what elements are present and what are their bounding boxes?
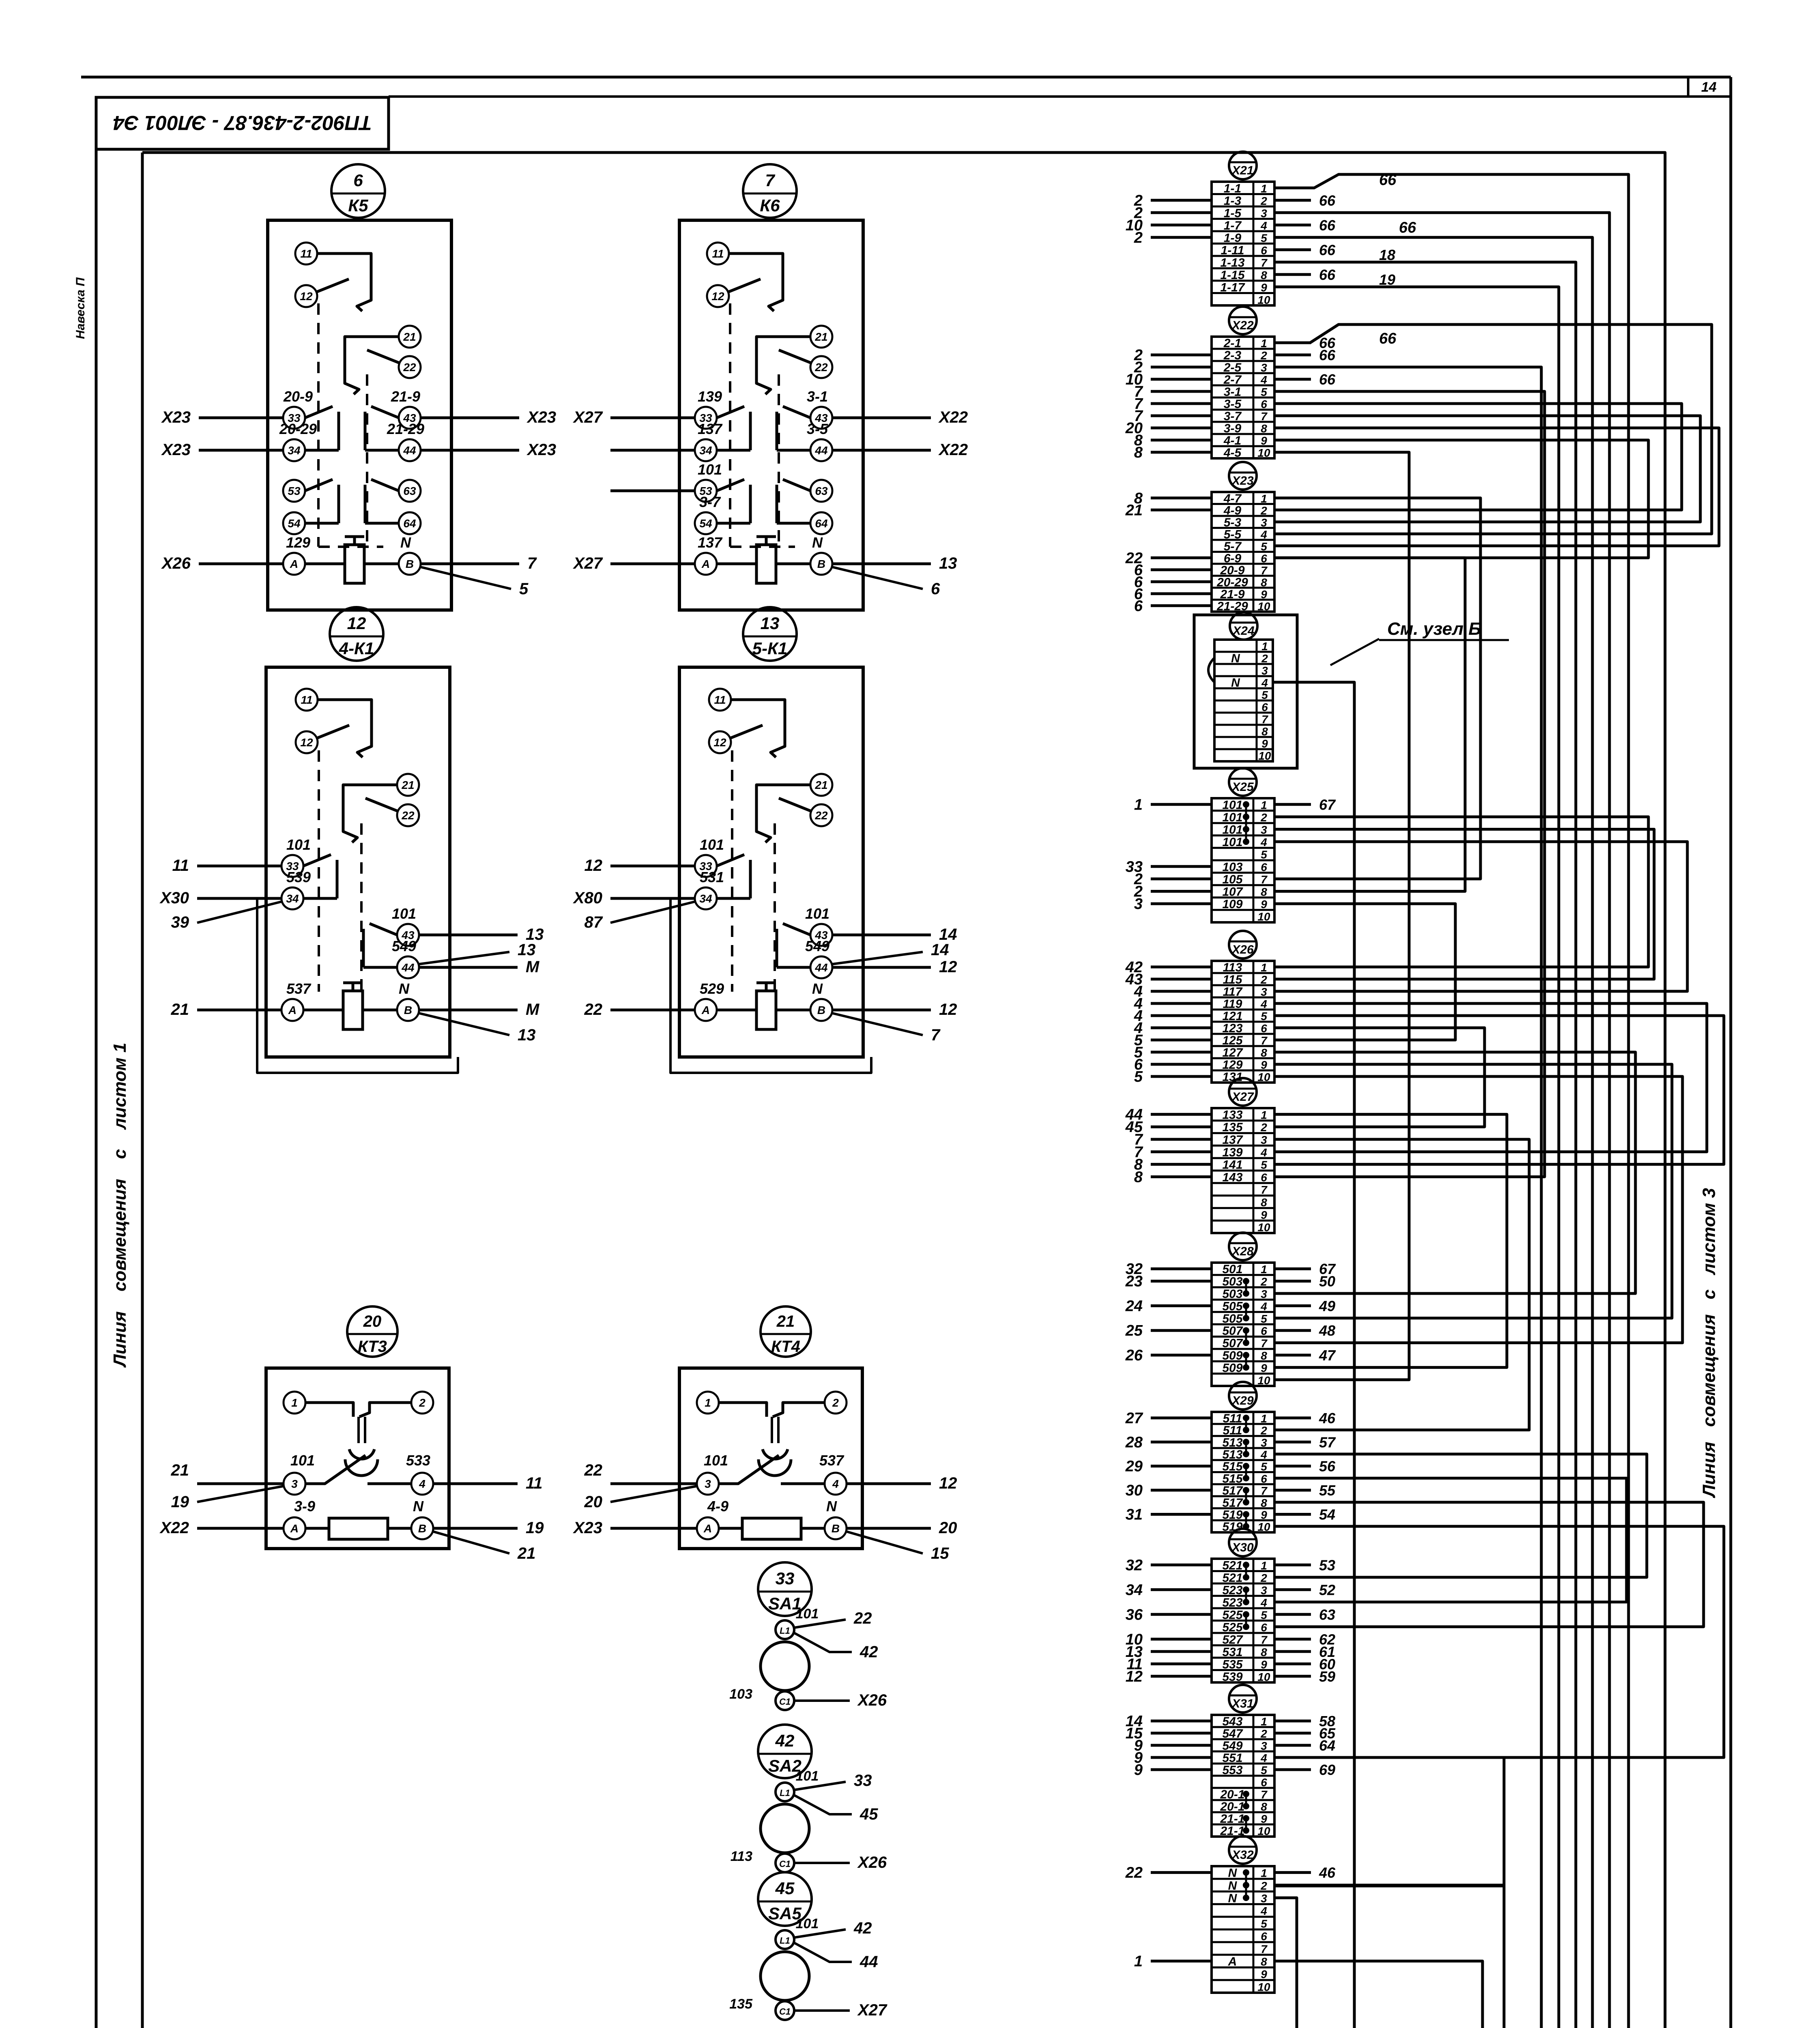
wire loop X26 r4 to X27 r4 (1274, 1003, 1707, 1152)
svg-text:63: 63 (403, 485, 416, 497)
svg-text:6: 6 (1261, 398, 1267, 410)
svg-text:9: 9 (1261, 898, 1267, 911)
svg-text:105: 105 (1222, 873, 1243, 886)
svg-text:6: 6 (1261, 861, 1267, 873)
wire loop X26 r6 to X27 r2 (1274, 1028, 1485, 1127)
svg-text:535: 535 (1222, 1658, 1243, 1671)
svg-text:135: 135 (729, 1996, 753, 2012)
svg-text:109: 109 (1222, 898, 1242, 911)
svg-text:7: 7 (1261, 1184, 1268, 1196)
stamp box top-left (96, 97, 389, 149)
svg-text:101: 101 (290, 1452, 315, 1469)
terminal strip X24 (1208, 612, 1273, 762)
svg-text:1: 1 (1134, 1953, 1143, 1970)
svg-text:1: 1 (1134, 796, 1143, 813)
wire loop X26 r9 to X28 r5 (1274, 1064, 1672, 1318)
svg-text:20-9: 20-9 (1220, 564, 1244, 577)
svg-text:3: 3 (1261, 664, 1268, 677)
wire loop X26 r8 to X28 r3 (1274, 1052, 1635, 1293)
svg-text:6: 6 (1261, 1022, 1267, 1035)
switch-lamp SA1 designator (758, 1562, 812, 1616)
svg-text:101: 101 (796, 1916, 819, 1931)
svg-text:В: В (832, 1522, 840, 1535)
svg-text:В: В (406, 558, 414, 570)
svg-text:8: 8 (1261, 1349, 1267, 1362)
svg-text:4-К1: 4-К1 (339, 639, 374, 658)
svg-text:7: 7 (1261, 256, 1268, 269)
svg-text:7: 7 (1261, 1034, 1268, 1047)
svg-text:КТ3: КТ3 (358, 1338, 387, 1356)
lamp SA5 symbol (729, 1916, 887, 2020)
svg-text:14: 14 (1701, 79, 1717, 95)
svg-text:X22: X22 (938, 408, 968, 426)
svg-text:139: 139 (698, 388, 722, 405)
svg-text:539: 539 (286, 869, 311, 885)
svg-text:C1: C1 (779, 2007, 791, 2017)
svg-text:137: 137 (698, 421, 723, 437)
svg-text:3: 3 (1261, 1584, 1267, 1596)
svg-text:6: 6 (1261, 244, 1267, 257)
svg-text:N: N (812, 534, 823, 551)
svg-text:7: 7 (765, 171, 775, 190)
svg-text:1-11: 1-11 (1221, 244, 1244, 257)
svg-text:27: 27 (1125, 1410, 1143, 1427)
svg-text:45: 45 (860, 1805, 878, 1823)
relay К5 designator (331, 164, 385, 218)
svg-text:513: 513 (1222, 1448, 1242, 1461)
svg-text:N: N (1228, 1892, 1238, 1905)
svg-text:20-29: 20-29 (279, 421, 317, 437)
svg-text:21-9: 21-9 (391, 388, 420, 405)
svg-text:22: 22 (853, 1609, 872, 1627)
svg-text:6: 6 (1134, 597, 1143, 614)
svg-text:10: 10 (1257, 1374, 1270, 1387)
svg-text:36: 36 (1126, 1606, 1143, 1623)
wire loop X29 r8 to X30 r6 (1274, 1502, 1704, 1627)
wire trunk V5 from X21 row5 (739, 237, 1592, 2028)
svg-text:1: 1 (1261, 1263, 1267, 1276)
svg-text:141: 141 (1222, 1158, 1242, 1172)
svg-text:4-1: 4-1 (1223, 434, 1241, 447)
svg-text:5-3: 5-3 (1224, 516, 1242, 529)
svg-text:21: 21 (403, 331, 416, 343)
svg-text:2: 2 (1260, 1727, 1267, 1740)
terminal strip X32 (1125, 1836, 1336, 1993)
svg-text:5-К1: 5-К1 (752, 639, 788, 658)
svg-text:N: N (413, 1498, 424, 1515)
svg-text:11: 11 (714, 694, 726, 706)
wire trunk V3 from X21 row9 (617, 287, 1559, 2028)
wire X32 row3 to bus (1274, 1898, 1297, 2028)
svg-text:3: 3 (1261, 1436, 1267, 1449)
svg-text:137: 137 (1222, 1133, 1243, 1147)
svg-text:1: 1 (1261, 799, 1267, 811)
svg-text:X26: X26 (857, 1854, 887, 1871)
wire X24 row4 to bus (1273, 682, 1354, 2028)
svg-text:5: 5 (1261, 1159, 1267, 1171)
svg-text:12: 12 (300, 290, 313, 303)
svg-text:8: 8 (1261, 269, 1267, 281)
svg-text:551: 551 (1222, 1751, 1242, 1765)
svg-text:7: 7 (1261, 1788, 1268, 1801)
svg-text:509: 509 (1222, 1349, 1242, 1362)
svg-text:56: 56 (1319, 1458, 1336, 1475)
svg-text:101: 101 (796, 1606, 819, 1622)
svg-text:4: 4 (1260, 1300, 1267, 1313)
svg-text:139: 139 (1222, 1146, 1242, 1159)
svg-text:101: 101 (1222, 798, 1242, 812)
svg-text:6: 6 (1261, 1930, 1267, 1943)
svg-text:N: N (1231, 652, 1240, 665)
svg-text:21: 21 (517, 1545, 536, 1562)
time relay КТ4 right wires (847, 1474, 957, 1562)
svg-text:5: 5 (1261, 232, 1267, 244)
svg-text:101: 101 (700, 836, 724, 853)
svg-text:103: 103 (729, 1686, 752, 1702)
wire loop X23 r6 to X25 r8 (1274, 558, 1465, 891)
relay К6 left wires (573, 408, 695, 572)
relay 4-К1 body (266, 667, 450, 1057)
svg-text:3-9: 3-9 (1224, 422, 1242, 435)
svg-text:10: 10 (1257, 294, 1270, 306)
svg-text:50: 50 (1319, 1273, 1335, 1290)
svg-text:4: 4 (1260, 1596, 1267, 1609)
svg-text:505: 505 (1222, 1300, 1243, 1313)
svg-text:1-13: 1-13 (1220, 256, 1244, 269)
svg-text:28: 28 (1125, 1434, 1143, 1451)
svg-text:3: 3 (1134, 896, 1143, 913)
svg-text:64: 64 (403, 517, 416, 530)
svg-text:33: 33 (854, 1772, 872, 1790)
svg-text:10: 10 (1257, 1825, 1270, 1837)
svg-text:7: 7 (1261, 713, 1268, 726)
svg-text:3: 3 (291, 1478, 298, 1490)
svg-text:4: 4 (1260, 1448, 1267, 1461)
svg-text:В: В (418, 1522, 426, 1535)
svg-text:42: 42 (775, 1731, 795, 1750)
svg-text:2: 2 (1260, 1121, 1267, 1134)
svg-text:8: 8 (1261, 1955, 1267, 1968)
svg-text:11: 11 (300, 247, 312, 260)
svg-text:X29: X29 (1231, 1394, 1254, 1407)
svg-text:1-15: 1-15 (1220, 269, 1245, 282)
svg-text:21: 21 (1125, 502, 1143, 519)
svg-text:1-17: 1-17 (1220, 281, 1245, 294)
svg-text:3: 3 (1261, 1740, 1267, 1752)
svg-text:11: 11 (172, 857, 189, 874)
svg-text:3: 3 (1261, 361, 1267, 374)
time relay КТ4 left wires (573, 1461, 697, 1537)
svg-text:X30: X30 (159, 889, 189, 907)
svg-text:А: А (1228, 1955, 1237, 1968)
svg-text:101: 101 (805, 905, 829, 922)
svg-text:2: 2 (1260, 973, 1267, 986)
svg-text:7: 7 (1261, 564, 1268, 577)
svg-text:5: 5 (1261, 1764, 1267, 1777)
svg-text:135: 135 (1222, 1121, 1243, 1134)
svg-text:3: 3 (705, 1478, 711, 1490)
svg-text:7: 7 (1261, 873, 1268, 886)
wire loop X26 r5 to X27 r5 (1274, 1016, 1724, 1164)
svg-text:А: А (703, 1522, 712, 1535)
svg-text:М: М (526, 1001, 540, 1018)
svg-text:2-7: 2-7 (1223, 373, 1242, 387)
svg-text:66: 66 (1379, 330, 1397, 347)
svg-text:52: 52 (1319, 1581, 1335, 1598)
switch-lamp SA5 designator (758, 1872, 812, 1926)
connector X24 box (1194, 615, 1297, 768)
svg-text:2: 2 (1260, 811, 1267, 824)
svg-text:3-1: 3-1 (807, 388, 828, 405)
svg-text:А: А (288, 1004, 297, 1016)
svg-text:531: 531 (1222, 1646, 1242, 1659)
svg-text:519: 519 (1222, 1508, 1242, 1521)
svg-text:511: 511 (1223, 1412, 1242, 1425)
svg-text:8: 8 (1261, 576, 1267, 589)
svg-text:М: М (526, 958, 540, 976)
svg-text:501: 501 (1222, 1263, 1242, 1276)
svg-text:507: 507 (1222, 1337, 1243, 1350)
svg-text:21: 21 (814, 331, 827, 343)
svg-text:9: 9 (1261, 1813, 1267, 1825)
svg-text:133: 133 (1222, 1108, 1242, 1121)
wire loop X25 r3 to X26 r2 (1274, 829, 1654, 980)
wire loop X27 r3 to X29 r2 (1274, 1139, 1529, 1430)
svg-text:X21: X21 (1231, 164, 1253, 177)
svg-text:10: 10 (1257, 1221, 1270, 1234)
svg-text:В: В (817, 558, 825, 570)
svg-text:10: 10 (1257, 1981, 1270, 1993)
svg-text:129: 129 (286, 534, 310, 551)
relay К6 body (679, 220, 863, 610)
svg-text:57: 57 (1319, 1434, 1336, 1450)
svg-text:26: 26 (1125, 1347, 1143, 1364)
svg-text:6: 6 (931, 580, 940, 598)
relay К5 left wires (161, 408, 283, 572)
svg-text:8: 8 (1261, 1196, 1267, 1209)
svg-text:3: 3 (1261, 986, 1267, 998)
svg-text:20: 20 (584, 1493, 603, 1511)
svg-text:45: 45 (775, 1879, 795, 1898)
svg-text:2-5: 2-5 (1223, 361, 1242, 374)
svg-text:1: 1 (1261, 961, 1267, 974)
relay 4-К1 right wires (419, 926, 544, 1044)
svg-text:547: 547 (1222, 1727, 1243, 1740)
sheet number cell divider (1687, 77, 1689, 97)
svg-text:N: N (826, 1498, 837, 1515)
svg-text:4: 4 (1260, 836, 1267, 849)
wire loop X26 r10 to X28 r7 (1274, 1076, 1682, 1343)
svg-text:8: 8 (1261, 1800, 1267, 1813)
svg-text:6: 6 (1261, 1472, 1267, 1485)
svg-text:521: 521 (1222, 1559, 1242, 1572)
svg-text:22: 22 (403, 361, 416, 374)
svg-text:12: 12 (347, 614, 366, 633)
svg-text:3: 3 (1261, 207, 1267, 219)
svg-text:103: 103 (1222, 860, 1242, 874)
svg-text:34: 34 (1126, 1581, 1143, 1598)
svg-text:В: В (404, 1004, 412, 1016)
relay 5-К1 left wires (573, 857, 871, 1073)
svg-text:54: 54 (1319, 1506, 1335, 1523)
svg-text:X32: X32 (1231, 1848, 1254, 1862)
svg-text:101: 101 (796, 1768, 819, 1784)
svg-text:53: 53 (1319, 1557, 1335, 1573)
svg-text:115: 115 (1223, 973, 1243, 986)
wire loop X22 r5 to X27 r6 (1274, 391, 1545, 1177)
wire loop X25 r4 to X26 r3 (1274, 842, 1687, 991)
svg-text:129: 129 (1222, 1058, 1242, 1072)
svg-text:5: 5 (1261, 1010, 1267, 1023)
terminal strip X21 (1126, 152, 1336, 306)
svg-text:1: 1 (1261, 1109, 1267, 1121)
svg-text:10: 10 (1257, 1071, 1270, 1083)
svg-text:21-9: 21-9 (1220, 588, 1244, 601)
wire loop X22 r10 to X28 r10 (1274, 452, 1409, 1380)
svg-text:21: 21 (776, 1313, 795, 1330)
svg-text:X23: X23 (161, 408, 191, 426)
svg-text:4: 4 (1261, 677, 1268, 689)
svg-text:44: 44 (401, 961, 415, 974)
svg-text:9: 9 (1261, 1968, 1267, 1981)
svg-text:X27: X27 (573, 554, 603, 572)
wire loop X22 r7 to X23 r3 (1274, 416, 1700, 522)
svg-text:11: 11 (526, 1474, 543, 1492)
svg-text:22: 22 (1125, 1865, 1143, 1882)
svg-text:X23: X23 (526, 441, 556, 459)
svg-text:34: 34 (699, 444, 712, 457)
svg-text:2: 2 (1260, 1572, 1267, 1584)
svg-text:2: 2 (1260, 349, 1267, 362)
svg-text:511: 511 (1223, 1424, 1242, 1437)
svg-text:505: 505 (1222, 1312, 1243, 1326)
svg-text:2: 2 (1134, 229, 1143, 246)
svg-text:8: 8 (1261, 1646, 1267, 1658)
svg-text:5: 5 (1261, 386, 1267, 398)
svg-text:X22: X22 (938, 441, 968, 459)
svg-text:125: 125 (1222, 1034, 1243, 1047)
svg-text:1: 1 (1261, 182, 1267, 195)
terminal strip X27 (1125, 1078, 1274, 1234)
svg-text:7: 7 (527, 554, 537, 572)
svg-text:4: 4 (1260, 998, 1267, 1010)
svg-text:L1: L1 (780, 1936, 790, 1946)
svg-text:К6: К6 (760, 196, 780, 215)
svg-text:6: 6 (1261, 1171, 1267, 1184)
svg-text:66: 66 (1319, 242, 1336, 258)
svg-text:12: 12 (713, 736, 726, 749)
svg-text:539: 539 (1222, 1670, 1242, 1684)
svg-text:66: 66 (1399, 219, 1416, 236)
svg-text:22: 22 (814, 809, 828, 822)
svg-text:87: 87 (584, 913, 603, 931)
top border line (81, 76, 1731, 79)
svg-text:34: 34 (699, 892, 712, 905)
svg-text:143: 143 (1222, 1171, 1242, 1184)
wire loop X22 r8 to X23 r5 (1274, 428, 1719, 546)
svg-text:X26: X26 (857, 1691, 887, 1709)
svg-text:13: 13 (518, 1026, 536, 1044)
wire trunk V2 from X22 row3 (555, 367, 1541, 2028)
svg-text:А: А (290, 558, 298, 570)
svg-text:19: 19 (171, 1493, 189, 1511)
wire X22 row1 to X23 row4 (1274, 324, 1712, 534)
terminal strip X29 (1125, 1382, 1336, 1534)
svg-text:20-1: 20-1 (1220, 1800, 1244, 1813)
svg-text:12: 12 (1126, 1668, 1143, 1685)
wire loop X22 r6 to X23 r2 (1274, 404, 1682, 510)
svg-text:515: 515 (1222, 1460, 1243, 1474)
switch-lamp SA2 designator (758, 1725, 812, 1778)
svg-text:3-7: 3-7 (699, 494, 721, 510)
svg-text:6: 6 (1261, 552, 1267, 565)
svg-text:533: 533 (406, 1452, 430, 1469)
svg-text:113: 113 (731, 1849, 752, 1864)
svg-text:2-1: 2-1 (1223, 337, 1241, 350)
svg-text:12: 12 (300, 736, 313, 749)
svg-text:12: 12 (939, 958, 957, 976)
svg-text:5: 5 (1261, 1917, 1267, 1930)
svg-text:4-7: 4-7 (1223, 492, 1242, 505)
svg-text:20: 20 (939, 1519, 957, 1537)
svg-text:5: 5 (1261, 540, 1267, 553)
svg-text:63: 63 (1319, 1606, 1335, 1623)
svg-text:7: 7 (1261, 410, 1268, 423)
svg-text:53: 53 (288, 485, 301, 497)
wire loop X32 r2 to trunk V1 (1274, 1885, 1504, 1886)
svg-text:525: 525 (1222, 1621, 1243, 1634)
header band line (389, 95, 1731, 98)
svg-text:1-5: 1-5 (1224, 206, 1242, 220)
svg-text:8: 8 (1261, 1497, 1267, 1509)
svg-text:527: 527 (1222, 1633, 1243, 1646)
svg-text:44: 44 (814, 961, 828, 974)
svg-text:5: 5 (1261, 849, 1267, 861)
svg-text:2: 2 (1260, 1424, 1267, 1437)
time relay КТ3 body (266, 1368, 449, 1549)
svg-text:N: N (399, 980, 410, 997)
wire loop X29 r4 to X30 r2 (1274, 1454, 1647, 1577)
svg-text:33: 33 (776, 1569, 795, 1588)
svg-text:3: 3 (1261, 1288, 1267, 1300)
terminal strip X25 (1126, 768, 1336, 923)
svg-text:25: 25 (1125, 1322, 1143, 1339)
svg-text:517: 517 (1222, 1484, 1243, 1497)
svg-text:49: 49 (1319, 1298, 1335, 1314)
svg-text:1: 1 (1261, 1412, 1267, 1425)
svg-text:101: 101 (1222, 836, 1242, 849)
svg-text:Навеска П: Навеска П (74, 277, 87, 339)
svg-text:1-7: 1-7 (1224, 219, 1242, 232)
svg-text:8: 8 (1261, 422, 1267, 435)
svg-text:1: 1 (1261, 337, 1267, 350)
svg-text:N: N (1228, 1867, 1238, 1880)
terminal strip X28 (1125, 1233, 1336, 1387)
svg-text:8: 8 (1261, 886, 1267, 898)
svg-text:523: 523 (1222, 1596, 1242, 1609)
svg-text:22: 22 (584, 1001, 603, 1018)
svg-text:12: 12 (939, 1001, 957, 1018)
svg-text:5-7: 5-7 (1224, 540, 1242, 553)
svg-text:64: 64 (815, 517, 828, 530)
relay К6 designator (743, 164, 797, 218)
time relay КТ3 designator (347, 1306, 398, 1357)
time relay КТ3 left wires (159, 1461, 284, 1537)
svg-text:См. узел Б: См. узел Б (1387, 619, 1481, 639)
wire loop X27 r1 to X28 r9 (1274, 1114, 1507, 1367)
svg-text:5: 5 (1261, 1313, 1267, 1325)
svg-text:20-1: 20-1 (1220, 1788, 1244, 1801)
